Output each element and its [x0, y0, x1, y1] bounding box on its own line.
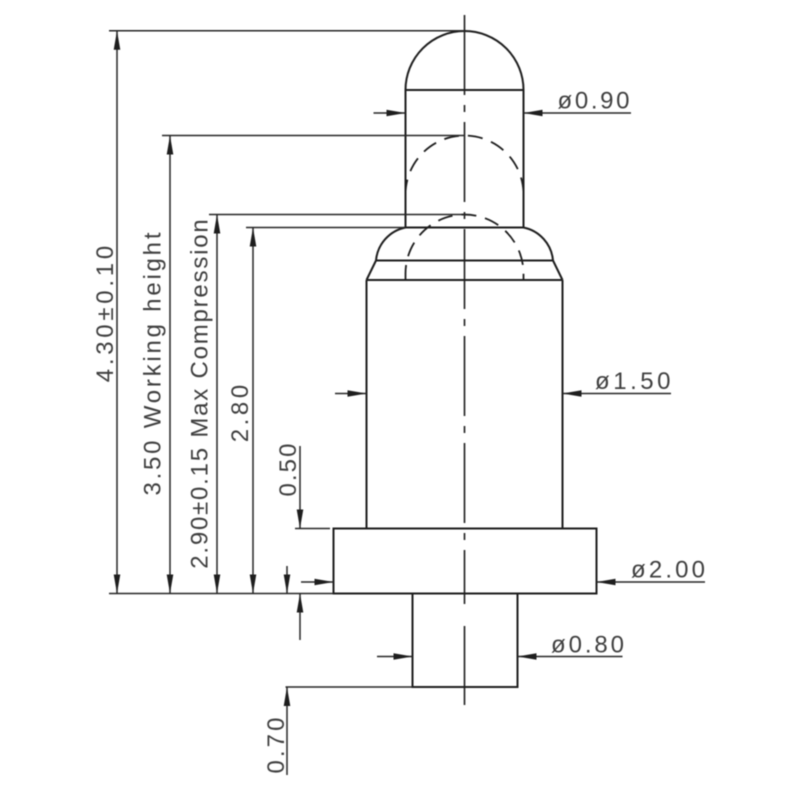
body top line	[367, 279, 563, 281]
extension tick at flange top	[295, 528, 330, 530]
plunger dome base line	[406, 89, 524, 91]
dashed plunger at max compression	[406, 215, 524, 280]
arrowhead dia2.00 right (left)	[597, 579, 616, 586]
plunger dome	[406, 31, 524, 90]
arrowhead 2.80 top (up)	[250, 228, 257, 247]
dia 0.90 right leader line	[524, 112, 632, 114]
dim 2.90 leader at max compression	[209, 214, 465, 216]
dia 1.50 left arrow line	[335, 393, 367, 395]
crown skirt left	[367, 261, 377, 281]
dia 0.90 left arrow line	[374, 112, 406, 114]
plunger right side	[523, 90, 525, 228]
arrowhead 2.80 bottom (down)	[250, 575, 257, 594]
arrowhead dia1.50 left (right)	[348, 390, 367, 397]
arrowhead dia1.50 right (left)	[563, 390, 582, 397]
svg-text:0.50: 0.50	[275, 444, 302, 497]
arrowhead 0.50 upper (down onto flange top)	[297, 510, 304, 529]
dia 2.00 left arrow line	[301, 581, 334, 583]
crown top edge	[406, 227, 524, 229]
arrowhead 3.50 bottom (down)	[167, 575, 174, 594]
dim 2.80 leader to crown top	[246, 227, 406, 229]
dim 0.70 upper arrow line	[286, 566, 288, 594]
dashed plunger at working height	[406, 136, 524, 195]
arrowhead dia2.00 left (right)	[315, 579, 334, 586]
svg-text:4.30±0.10: 4.30±0.10	[92, 246, 119, 383]
svg-text:ø1.50: ø1.50	[595, 368, 671, 395]
body right side	[562, 280, 564, 529]
svg-text:ø0.80: ø0.80	[551, 632, 624, 659]
dia 2.00 right leader line	[597, 581, 706, 583]
plunger left side	[405, 90, 407, 228]
svg-text:ø2.00: ø2.00	[631, 557, 705, 584]
arrowhead 0.70 lower (up onto tail bottom)	[284, 687, 291, 706]
arrowhead 4.30 bottom (down)	[114, 575, 121, 594]
svg-text:0.70: 0.70	[263, 718, 290, 774]
flange outline	[334, 529, 597, 594]
dia 1.50 right leader line	[563, 393, 672, 395]
svg-text:3.50 Working height: 3.50 Working height	[140, 232, 167, 495]
svg-text:2.90±0.15 Max Compression: 2.90±0.15 Max Compression	[187, 219, 214, 569]
center line	[464, 15, 466, 604]
dia 0.80 left arrow line	[377, 656, 413, 658]
body left side	[366, 280, 368, 529]
dim 2.90 line	[216, 215, 218, 594]
dim 3.50 leader at working height	[162, 135, 465, 137]
dim 0.50 upper arrow line	[299, 446, 301, 529]
dim 4.30 line	[116, 31, 118, 594]
crown skirt right	[553, 261, 563, 281]
arrowhead dia0.90 left (right)	[387, 110, 406, 117]
dim 2.80 line	[252, 228, 254, 594]
dim 4.30 leader at free-height top	[109, 30, 465, 32]
svg-text:2.80: 2.80	[227, 385, 254, 443]
dia 0.80 right leader line	[518, 656, 623, 658]
arrowhead dia0.90 right (left)	[524, 110, 543, 117]
tail outline	[413, 594, 518, 688]
crown right shoulder	[524, 228, 554, 261]
arrowhead 0.50 lower (up onto flange bottom)	[297, 594, 304, 613]
arrowhead 2.90 top (up)	[214, 215, 221, 234]
svg-text:ø0.90: ø0.90	[558, 88, 630, 115]
dim 0.70 lower arrow line	[286, 687, 288, 775]
arrowhead dia0.80 left (right)	[394, 653, 413, 660]
crown left shoulder	[376, 228, 406, 261]
arrowhead 4.30 top (up)	[114, 31, 121, 50]
dim 3.50 line	[169, 136, 171, 594]
arrowhead 2.90 bottom (down)	[214, 575, 221, 594]
arrowhead 0.70 upper (down onto flange bottom)	[284, 575, 291, 594]
arrowhead dia0.80 right (left)	[518, 653, 537, 660]
bottom extension line at flange bottom	[109, 593, 334, 595]
crown base line	[376, 260, 553, 262]
dim 0.50 lower arrow line	[299, 594, 301, 641]
tail bottom extension line	[286, 686, 413, 688]
arrowhead 3.50 top (up)	[167, 136, 174, 155]
center line lower segment	[464, 626, 466, 705]
